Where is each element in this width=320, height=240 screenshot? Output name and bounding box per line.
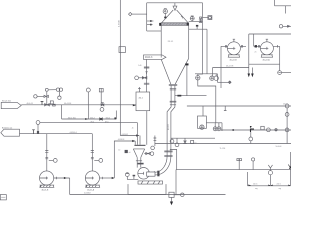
wire main feed line A [21, 104, 136, 106]
box top right bottom edge [275, 5, 292, 7]
node pump P3 internals [138, 172, 144, 175]
instrument circle under Y [268, 171, 272, 175]
vessel T1 left wall [160, 25, 162, 57]
svg-text:4-63402: 4-63402 [84, 193, 91, 195]
instrument circle below R1 [285, 113, 289, 117]
node pump P3 nozzle [147, 172, 155, 176]
node black tee below [196, 25, 198, 27]
vessel T1 packing band [161, 23, 189, 26]
valve bowtie small [44, 95, 48, 97]
wire suction pump B [91, 134, 93, 172]
instrument circle row b [175, 143, 179, 147]
wire instrument row line [171, 137, 215, 139]
instrument circle on C [36, 121, 40, 125]
wire corner drop x154.9 [154, 136, 156, 147]
vessel T1 vent triangle [173, 3, 177, 11]
pump P3 circle [138, 168, 150, 180]
wire branch to drip leg [170, 150, 177, 170]
pipe header bar dark [134, 145, 145, 146]
node drain arrow 1 [248, 74, 251, 78]
wire between circles [49, 89, 57, 91]
svg-text:avg: avg [279, 188, 282, 190]
valve station vertical [146, 59, 148, 92]
wire interstage line [213, 67, 249, 69]
wire B riser corner [115, 111, 117, 120]
wire drop to header 2 [134, 141, 136, 145]
pipe elbow inner [151, 156, 168, 172]
wire to seal circle [174, 194, 180, 196]
node arrow P1 [112, 177, 115, 179]
valve closed tick on A [41, 102, 44, 105]
node tee cap dark [133, 175, 136, 177]
node blob on C [37, 131, 39, 134]
svg-text:Steam line: Steam line [2, 99, 11, 102]
node pump K2 discharge stub [240, 45, 246, 48]
wire dim drop circle [269, 175, 271, 186]
wire station branch [139, 77, 147, 79]
wire suction pump A [46, 134, 48, 172]
node arrow on B [85, 118, 88, 120]
node pump K1 discharge stub [273, 45, 279, 48]
valve bowtie station [142, 77, 147, 79]
pump P1 circle [85, 171, 99, 185]
svg-text:avg: avg [255, 188, 258, 190]
node reducer A [45, 151, 48, 153]
wire discharge P2 [54, 177, 70, 179]
wire top right supply line [249, 33, 291, 35]
ejector J1 [196, 76, 200, 80]
svg-text:460 4 300: 460 4 300 [68, 117, 76, 119]
pump P2 base [40, 185, 55, 187]
node corner foot [114, 117, 116, 119]
node bottom flange [169, 84, 177, 87]
node black nozzle right band [187, 23, 189, 26]
wire drain stem [171, 197, 173, 201]
node tick on discharge P1 [101, 177, 103, 179]
node gear circle in box [200, 125, 204, 129]
node arrow P2 [64, 177, 67, 179]
node pipe flange 1 [170, 100, 177, 103]
node station flange top [144, 67, 149, 68]
wire suction drop x221 [220, 46, 222, 88]
svg-text:46-1: 46-1 [139, 98, 144, 100]
node drain arrow 2 [251, 74, 254, 78]
node stem to long line [250, 141, 252, 144]
instrument circle station [135, 76, 139, 80]
instrument circle pair b [56, 88, 59, 91]
pipe funnel outlet left [136, 157, 138, 167]
pump K1 base [261, 55, 273, 57]
node Y strainer [268, 165, 272, 170]
wire vertical from header left [146, 3, 148, 31]
svg-text:46-21-B: 46-21-B [42, 189, 49, 191]
wire stub into vessel [147, 30, 162, 32]
pipe column upper left wall [167, 85, 171, 156]
funnel hopper [133, 149, 144, 158]
wire riser A to B left [61, 105, 63, 119]
instrument dual box [99, 88, 103, 92]
node pipe flange 0 [170, 89, 176, 90]
valve bowtie funnel side [146, 152, 150, 154]
svg-text:2F 01: 2F 01 [168, 41, 174, 43]
node station flange bottom [144, 83, 149, 84]
svg-text:46-4-63: 46-4-63 [27, 103, 33, 105]
node black nozzle flange [159, 23, 161, 26]
svg-text:1-46: 1-46 [138, 65, 141, 67]
instrument gear circle vent [190, 16, 194, 20]
node stems row [172, 138, 177, 143]
wire stem circle to C [37, 124, 39, 130]
node pump K1 internals [260, 47, 268, 50]
component inline box on vertical [119, 47, 125, 53]
vessel T1 right wall [188, 25, 190, 58]
wire discharge P1 [100, 177, 115, 179]
wire gauge stub B [94, 159, 99, 161]
valve bowtie on A [45, 104, 50, 106]
steam trap square [50, 101, 53, 104]
wire to valve [37, 95, 44, 97]
wire stem dual boxes [238, 161, 240, 170]
valve with cap on A [101, 103, 104, 106]
tag box equipment [136, 92, 150, 111]
svg-text:50-4-64: 50-4-64 [276, 146, 282, 148]
node riser flange lower [164, 154, 172, 157]
wire line D [40, 122, 138, 124]
instrument circle drop [249, 137, 253, 141]
node PI stem [278, 64, 280, 72]
wire gauge stub A [49, 159, 54, 161]
svg-text:4-63403: 4-63403 [118, 139, 125, 141]
node arrow head [136, 134, 139, 136]
node ticks x154.9 [154, 138, 157, 140]
wire drop x210.5 [212, 68, 214, 77]
wire riser A to B mid [88, 105, 90, 119]
wire drop to header [139, 136, 141, 145]
node ejector J3 stem [215, 74, 217, 76]
node pump K1 suction stub [254, 45, 261, 48]
wire funnel side stub [144, 153, 150, 155]
wire ejector manifold [195, 73, 217, 75]
svg-text:400-4: 400-4 [90, 117, 95, 119]
node ejector J2 cross [210, 77, 213, 80]
node gear cross b1 [214, 123, 217, 131]
svg-text:46-D-3: 46-D-3 [145, 56, 153, 59]
wire right downcomer [186, 66, 188, 96]
box PSV narrow [198, 116, 207, 128]
wire right edge vertical [290, 152, 292, 186]
pump K2 circle [227, 42, 240, 55]
node arrow riser [132, 140, 135, 142]
instrument circle row right [267, 128, 271, 132]
box top right corner [274, 0, 276, 6]
wire stem and line to pump [127, 177, 138, 180]
instrument circle below A [100, 108, 104, 112]
wire discharge corner P2 [69, 178, 71, 195]
svg-text:4-63402: 4-63402 [122, 134, 129, 136]
wire stem circle [252, 161, 254, 170]
node arrow into tag box [133, 104, 136, 106]
wire vertical from header to ejector 1 [198, 3, 203, 76]
node pump K1 vent stub [266, 39, 268, 42]
node ejector J1 cross [196, 76, 199, 79]
svg-text:4-6340-6: 4-6340-6 [70, 132, 77, 134]
wire stem down 2 [100, 92, 102, 105]
flag feed inlet [1, 102, 21, 108]
node riser flange upper [164, 150, 172, 153]
pipe elbow outer [151, 156, 171, 175]
node nozzle blind on right slope [185, 63, 188, 65]
node gear circle b1 [213, 127, 217, 131]
ejector J2 [210, 76, 214, 80]
pump K2 base [228, 55, 240, 57]
svg-text:46-4-634: 46-4-634 [64, 103, 71, 105]
pump P1 base [85, 185, 100, 187]
tag flag on vessel [144, 55, 167, 60]
wire box left edge [175, 170, 177, 195]
wire to square box [203, 17, 208, 19]
wire pump K1 discharge down [279, 46, 281, 64]
instrument LI circle on cone [163, 9, 167, 13]
node valve actuator box [200, 17, 202, 19]
wire drop x137.5 [137, 123, 139, 145]
node pump K2 suction stub [221, 45, 227, 48]
pump P2 circle [40, 171, 54, 185]
svg-text:46-22-B: 46-22-B [230, 60, 238, 62]
wire stem down [87, 92, 89, 105]
wire drain drop 1 [248, 68, 250, 74]
wire top header line [147, 2, 203, 4]
vessel T1 bottom cone right [175, 58, 189, 84]
skid outline [128, 184, 166, 194]
wire drop to line A [46, 92, 48, 105]
node dual boxes [237, 159, 242, 161]
node tee stub under R1 [224, 106, 227, 111]
node pump K2 internals [227, 47, 235, 50]
wire instrument stem [164, 14, 166, 18]
wire drop x287.1 [286, 108, 288, 144]
wire vertical x222 [221, 123, 223, 131]
node pump P1 internals [85, 177, 94, 180]
svg-text:46-22-A: 46-22-A [263, 59, 271, 62]
valve vertical on long line [184, 138, 186, 143]
valve control on vent branch [199, 19, 201, 23]
wire bottom right long line [176, 169, 291, 171]
node station cap [145, 72, 147, 74]
instrument circle small [252, 158, 255, 161]
svg-text:200 m: 200 m [253, 184, 258, 186]
box legend corner [0, 195, 6, 200]
instrument circle with line [34, 95, 37, 98]
instrument circle on R1 [285, 104, 289, 108]
svg-text:x6: x6 [129, 152, 131, 154]
node nozzle black tick [177, 95, 181, 97]
instrument circle pump A [53, 159, 57, 163]
node tee stub with cap [133, 176, 135, 179]
wire bottom collect line [70, 194, 226, 196]
wire elbow drop [250, 132, 252, 137]
svg-text:10: 10 [118, 150, 120, 152]
node nozzle stub y24.6 [147, 24, 153, 26]
wire dim drop mid [247, 172, 249, 186]
svg-text:Bottoms out: Bottoms out [2, 127, 13, 130]
wire black tee stem [196, 27, 198, 30]
wire from box down [285, 6, 287, 14]
instrument circle above A mid [86, 88, 90, 92]
pipe funnel outlet right [140, 157, 142, 167]
node valve ticks B [91, 158, 94, 159]
wire drop to K1 suction [253, 34, 255, 46]
instrument square box [208, 16, 212, 20]
drain box on bottom line [169, 192, 174, 197]
vessel T1 top cone right slope [177, 10, 189, 23]
instrument circle x154.9 [151, 146, 155, 150]
wire second drop into box [138, 87, 140, 92]
node instrument cap dark [126, 173, 129, 174]
svg-text:46-4-708: 46-4-708 [226, 66, 233, 68]
node instrument circle in box [209, 16, 212, 19]
instrument PI circle right [278, 71, 282, 75]
vessel T1 top cone left slope [162, 10, 174, 23]
svg-text:50: 50 [194, 142, 196, 144]
node stem under Y [269, 170, 271, 171]
node dot on row [232, 129, 234, 131]
wire ejector J1 outlet [198, 80, 216, 123]
node V arrow right edge [288, 165, 291, 169]
instrument circle funnel side [150, 152, 154, 156]
wire manifold drop [216, 74, 218, 83]
valve black on B [100, 118, 102, 120]
wire from diamond [132, 13, 147, 15]
instrument circle pump B [99, 159, 103, 163]
node drain arrow [170, 202, 173, 206]
wire funnel feed line long [155, 143, 291, 145]
wire vertical x207 to ejector 2 [206, 29, 208, 74]
wire vertical x248.3 [248, 34, 250, 68]
node reducer B [91, 151, 94, 153]
wire symbols row line [221, 129, 291, 131]
wire arrow to edge [283, 25, 291, 27]
vessel T1 bottom cone left [161, 59, 171, 84]
wire arrow line into funnel branch [120, 135, 138, 137]
svg-text:46-63: 46-63 [168, 124, 170, 130]
wire line B [62, 118, 117, 120]
node pump K2 vent stub [233, 39, 235, 42]
instrument circle row far right [285, 128, 289, 132]
svg-text:200 m: 200 m [277, 184, 282, 186]
wire overhead nozzle line [175, 95, 207, 97]
svg-text:46-21-A: 46-21-A [87, 188, 94, 191]
node gear cross b2 [217, 123, 220, 131]
wire PI line to edge [282, 72, 292, 74]
svg-text:4x: 4x [132, 127, 134, 129]
wire dimension line [248, 185, 291, 187]
wire drop from R1 to box [202, 106, 204, 116]
wire long vertical main [119, 0, 121, 136]
pump P3 base [138, 181, 163, 184]
node pump P2 internals [40, 177, 49, 180]
node trap outlet box [53, 104, 56, 106]
svg-text:4-6340: 4-6340 [118, 19, 120, 27]
pump K1 circle [260, 42, 273, 55]
valve at pump discharge [148, 172, 154, 176]
node tick on discharge P2 [56, 177, 58, 179]
node arrow on row [275, 129, 277, 131]
wire line to drain funnel [217, 81, 228, 83]
node gear cross and cap [191, 16, 194, 22]
wire right long line R1 [187, 105, 291, 107]
wire discharge header [249, 63, 280, 65]
node dim arrows [248, 184, 290, 187]
node pipe flange 2 [170, 104, 176, 106]
node funnel box symbol [125, 150, 128, 153]
node pipe flange dark [157, 171, 159, 177]
wire station below box [146, 111, 148, 145]
svg-text:400-4: 400-4 [106, 117, 111, 119]
pipe column upper right wall [171, 85, 175, 156]
node valve ticks A [45, 158, 48, 159]
wire drain drop 2 [251, 68, 253, 74]
svg-text:TL-234: TL-234 [220, 148, 226, 150]
instrument circle pair a [45, 88, 48, 91]
instrument small box over line [191, 141, 194, 144]
node nozzle stub y21 [147, 20, 154, 22]
node gear circle b2 [217, 127, 221, 131]
instrument circle seal [181, 193, 185, 197]
wire vent branch line [189, 20, 203, 22]
node D1 diamond connector [129, 12, 132, 15]
valve closed tick on C [32, 130, 35, 134]
wire line C [20, 133, 93, 135]
ejector J3 [214, 76, 218, 80]
wire riser from P1 [114, 141, 134, 178]
instrument circle top right [279, 25, 282, 28]
node small box on row [261, 126, 264, 129]
instrument circle left of P3 [125, 173, 129, 177]
instrument circle row a [170, 139, 174, 143]
node outlet flange [136, 160, 142, 162]
node tick second drop [138, 87, 141, 89]
wire vent line lower [189, 28, 207, 30]
wire box outlet line [206, 122, 222, 124]
node K1 suction valve [255, 45, 257, 47]
node gear cross in box [200, 126, 203, 129]
node elbow fitting black [251, 127, 255, 132]
flag bottoms outlet [1, 129, 20, 136]
node funnel blob [228, 81, 231, 84]
svg-text:21: 21 [255, 52, 257, 54]
